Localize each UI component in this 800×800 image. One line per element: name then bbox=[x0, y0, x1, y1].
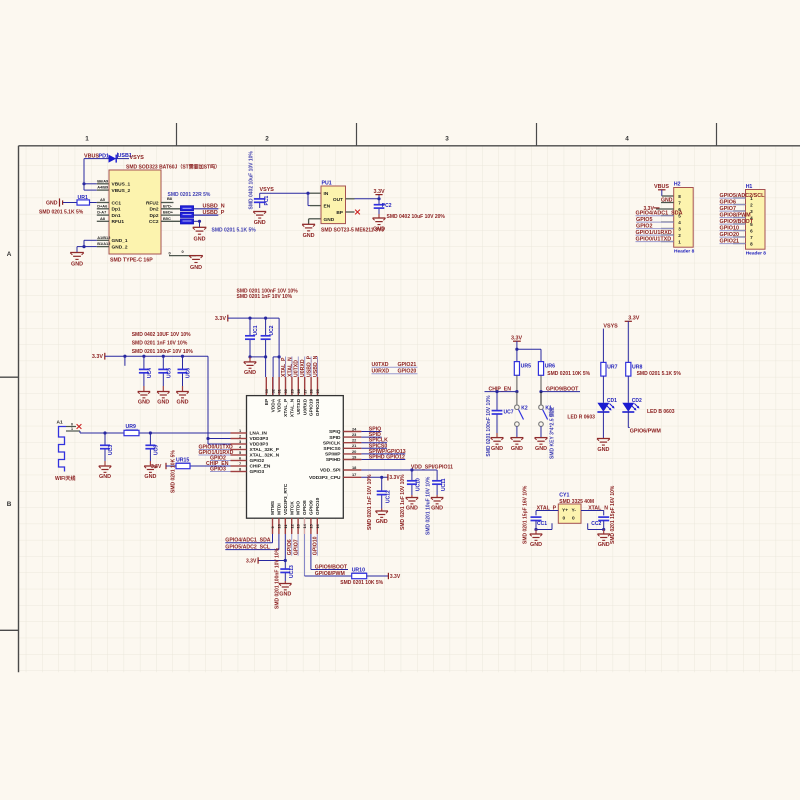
svg-text:GPIO2: GPIO2 bbox=[250, 458, 265, 464]
svg-text:SPIWP: SPIWP bbox=[325, 452, 341, 458]
svg-text:CC1: CC1 bbox=[112, 200, 122, 206]
pin 1 stub H1 bbox=[733, 197, 746, 199]
svg-text:GND: GND bbox=[406, 506, 418, 512]
pin 22 SPICLK bbox=[343, 442, 361, 444]
pin A4/B9 bbox=[97, 189, 109, 191]
svg-text:CC2: CC2 bbox=[149, 219, 159, 225]
svg-text:CC2: CC2 bbox=[591, 521, 601, 527]
svg-text:SMD 0201 10K 5%: SMD 0201 10K 5% bbox=[170, 450, 176, 493]
svg-text:SMD 0201 1nF 10V 10%: SMD 0201 1nF 10V 10% bbox=[132, 341, 188, 347]
power flag 3.3V UC1 rail bbox=[227, 315, 229, 322]
net label USBD_N vertical bbox=[317, 357, 319, 378]
svg-text:U0RXD: U0RXD bbox=[300, 359, 306, 377]
svg-text:Y-: Y- bbox=[572, 508, 577, 514]
junction UC1 top bbox=[248, 317, 251, 320]
net label USBD_P vertical bbox=[310, 357, 312, 378]
capacitor UC11 bbox=[436, 470, 438, 481]
row tick B-C bbox=[0, 629, 19, 631]
svg-text:SMD 0201 10K 5%: SMD 0201 10K 5% bbox=[547, 371, 590, 377]
no-connect antenna pin0 bbox=[77, 424, 82, 429]
wire GPIO9/BOOT row bbox=[541, 391, 580, 393]
svg-text:CHIP_EN: CHIP_EN bbox=[250, 464, 271, 470]
svg-text:VSYS: VSYS bbox=[260, 187, 275, 193]
power flag 3.3V UR10 bbox=[387, 573, 389, 579]
svg-text:GND: GND bbox=[597, 447, 609, 453]
svg-text:UC3: UC3 bbox=[108, 445, 114, 455]
svg-text:GND: GND bbox=[431, 506, 443, 512]
svg-text:GPIO9/BOOT: GPIO9/BOOT bbox=[546, 386, 579, 392]
junction UC2 bottom bbox=[264, 355, 267, 358]
svg-text:UC11: UC11 bbox=[441, 478, 447, 491]
antenna A1 meander bbox=[59, 427, 67, 472]
svg-text:OUT: OUT bbox=[333, 197, 343, 203]
svg-text:GPIO9/BOOT: GPIO9/BOOT bbox=[315, 564, 348, 570]
svg-text:A1/B12: A1/B12 bbox=[97, 235, 111, 240]
svg-text:XTAL_32K_P: XTAL_32K_P bbox=[250, 447, 280, 453]
svg-text:MTCK: MTCK bbox=[289, 501, 295, 515]
svg-text:1: 1 bbox=[678, 239, 681, 244]
wire CD2 to GPIO6/PWM bbox=[627, 412, 629, 428]
svg-text:GND: GND bbox=[244, 370, 256, 376]
svg-text:H1: H1 bbox=[746, 184, 753, 190]
svg-text:GPIO10: GPIO10 bbox=[313, 536, 319, 555]
svg-text:8: 8 bbox=[750, 241, 753, 246]
svg-text:UR6: UR6 bbox=[545, 364, 555, 370]
pin 4 stub bbox=[661, 221, 674, 223]
ground under PU1 bbox=[302, 223, 315, 225]
pin B5 CC2 bbox=[161, 220, 181, 222]
svg-text:3.3V: 3.3V bbox=[389, 475, 400, 481]
svg-text:SMD 0201 5.1K 5%: SMD 0201 5.1K 5% bbox=[637, 371, 682, 377]
wire VBUS to connector bbox=[83, 159, 85, 191]
IC bottom pin stubs bbox=[272, 518, 274, 534]
connector USB1 body bbox=[109, 170, 161, 254]
wire VDDA feed bbox=[273, 356, 279, 358]
junction OUT bbox=[377, 197, 380, 200]
svg-text:SMD 0201 10K 5%: SMD 0201 10K 5% bbox=[340, 580, 383, 586]
resistor UR6 bbox=[538, 362, 543, 376]
ground under PC1 bbox=[253, 211, 266, 213]
svg-text:RFU1: RFU1 bbox=[112, 219, 125, 225]
pin 6 3.3V stub bbox=[656, 208, 674, 210]
LED CD1 bbox=[602, 376, 604, 403]
net label U0RXD vertical bbox=[304, 357, 306, 378]
pin 2 VDD3P3 bbox=[231, 438, 247, 440]
ground shield bbox=[189, 255, 203, 257]
wire VSYS rail bbox=[260, 192, 310, 194]
svg-text:Y+: Y+ bbox=[562, 508, 568, 514]
svg-text:SMD KEY 3*4*2.5 侧按: SMD KEY 3*4*2.5 侧按 bbox=[549, 407, 556, 459]
svg-text:SPIQ: SPIQ bbox=[329, 429, 341, 435]
net label SPIHD GPIO12 bbox=[361, 459, 405, 461]
svg-text:GPIO8/PWM: GPIO8/PWM bbox=[315, 571, 345, 577]
svg-text:Header 8: Header 8 bbox=[674, 249, 695, 255]
svg-text:Header 8: Header 8 bbox=[746, 251, 767, 257]
svg-text:GND: GND bbox=[661, 197, 673, 203]
svg-text:0: 0 bbox=[563, 516, 566, 522]
svg-text:VDD_SPI: VDD_SPI bbox=[320, 468, 341, 474]
svg-text:GND: GND bbox=[190, 265, 202, 271]
svg-text:UR5: UR5 bbox=[521, 364, 531, 370]
svg-text:SMD 0201 22R 5%: SMD 0201 22R 5% bbox=[168, 192, 211, 198]
svg-text:UC10: UC10 bbox=[416, 478, 422, 491]
svg-text:SMD 0201 1nF 10V 10%: SMD 0201 1nF 10V 10% bbox=[367, 474, 373, 530]
svg-text:B7D-: B7D- bbox=[163, 203, 173, 208]
capacitor UC5 bbox=[162, 356, 164, 369]
wire 3.3V cap bank rail bbox=[105, 355, 208, 357]
pin OUT bbox=[346, 198, 355, 200]
resistor UR2 bbox=[181, 206, 194, 211]
svg-text:CY1: CY1 bbox=[559, 493, 569, 499]
svg-text:GPIO4/ADC1_SDA: GPIO4/ADC1_SDA bbox=[225, 538, 271, 544]
svg-text:USBD_P: USBD_P bbox=[307, 355, 313, 377]
svg-text:GPIO21: GPIO21 bbox=[398, 362, 417, 368]
junction UC9 bbox=[149, 431, 152, 434]
junction UC1 bottom bbox=[248, 355, 251, 358]
wire XTAL_N bbox=[581, 510, 604, 512]
pin 4 stub H1 bbox=[733, 217, 746, 219]
svg-text:VDD_SPI/GPIO11: VDD_SPI/GPIO11 bbox=[411, 465, 453, 471]
svg-text:Dn2: Dn2 bbox=[149, 207, 158, 213]
svg-text:7: 7 bbox=[239, 461, 241, 466]
svg-text:GND: GND bbox=[491, 446, 503, 452]
svg-text:H2: H2 bbox=[674, 182, 681, 188]
pin 2 stub H1 bbox=[733, 204, 746, 206]
ground under CC2 bbox=[603, 530, 605, 535]
pin 7 stub H1 bbox=[733, 236, 746, 238]
svg-text:VDDA: VDDA bbox=[277, 398, 283, 412]
pin 20 SPIWP bbox=[343, 453, 361, 455]
pin A1/B12 GND_1 bbox=[97, 239, 109, 241]
svg-text:GPIO10: GPIO10 bbox=[315, 497, 321, 515]
svg-text:UC7: UC7 bbox=[504, 409, 514, 415]
svg-text:GND: GND bbox=[144, 474, 156, 480]
svg-text:UC1: UC1 bbox=[253, 325, 259, 335]
capacitor CC1 bbox=[531, 516, 542, 518]
junction UC7 bbox=[495, 390, 498, 393]
svg-text:0: 0 bbox=[71, 422, 73, 426]
pin 19 SPIHD bbox=[343, 459, 361, 461]
net label GPIO6 vertical bbox=[291, 534, 293, 556]
svg-text:B1/A12: B1/A12 bbox=[97, 241, 111, 246]
svg-text:GND: GND bbox=[303, 233, 315, 239]
svg-text:27: 27 bbox=[302, 389, 307, 393]
svg-text:XTAL_P: XTAL_P bbox=[283, 398, 289, 417]
svg-text:GND_1: GND_1 bbox=[112, 238, 128, 244]
ground under UC7 bbox=[496, 433, 498, 438]
pin 7 CHIP_EN bbox=[231, 465, 247, 467]
pin 23 SPID bbox=[343, 436, 361, 438]
ground under PC2 bbox=[378, 214, 380, 218]
svg-text:VBUS_1: VBUS_1 bbox=[112, 182, 131, 188]
svg-text:2: 2 bbox=[678, 233, 681, 238]
pin 5 stub bbox=[661, 215, 674, 217]
pin D-/A7 Dn1 bbox=[97, 214, 109, 216]
svg-text:GND: GND bbox=[598, 542, 610, 548]
svg-text:GPIO20: GPIO20 bbox=[398, 369, 417, 375]
svg-text:2: 2 bbox=[750, 202, 753, 207]
svg-text:RFU2: RFU2 bbox=[146, 200, 159, 206]
svg-text:GPIO6/PWM: GPIO6/PWM bbox=[630, 428, 662, 434]
svg-text:GPIO19: GPIO19 bbox=[309, 398, 315, 416]
svg-text:UC4: UC4 bbox=[147, 368, 153, 378]
net label XTAL_N vertical bbox=[291, 357, 293, 378]
svg-text:3: 3 bbox=[445, 136, 449, 143]
svg-text:VSYS: VSYS bbox=[603, 323, 618, 329]
net label XTAL_P vertical bbox=[285, 357, 287, 378]
svg-text:UC13: UC13 bbox=[289, 565, 295, 578]
pin B7 Dn2 bbox=[161, 208, 181, 210]
svg-text:VDDA: VDDA bbox=[270, 398, 276, 412]
svg-text:20: 20 bbox=[352, 449, 356, 454]
ground under K2 bbox=[510, 437, 523, 439]
svg-text:B5C: B5C bbox=[163, 216, 171, 221]
svg-text:UC6: UC6 bbox=[186, 368, 192, 378]
svg-text:GND: GND bbox=[194, 237, 206, 243]
svg-text:4: 4 bbox=[625, 136, 629, 143]
pin 18 VDD_SPI bbox=[343, 469, 361, 471]
svg-text:MTDI: MTDI bbox=[277, 503, 283, 515]
resistor UR15 wire bbox=[190, 465, 231, 467]
wire EN bbox=[307, 193, 309, 205]
svg-text:SPIHD: SPIHD bbox=[326, 457, 341, 463]
wire VDD3P3_RTC 3.3V bbox=[284, 534, 286, 561]
svg-text:3.3V: 3.3V bbox=[92, 354, 103, 360]
svg-text:GPIO3: GPIO3 bbox=[250, 469, 265, 475]
wire VDD_SPI bbox=[361, 469, 437, 471]
ground under UC1 bbox=[249, 357, 251, 362]
svg-text:U0TXD: U0TXD bbox=[296, 398, 302, 414]
wire crystal gnd right bbox=[588, 529, 604, 531]
net label GPIO7 vertical bbox=[297, 534, 299, 556]
junction UC6 bbox=[181, 355, 184, 358]
svg-text:7: 7 bbox=[678, 200, 681, 205]
junction UC2 top bbox=[264, 317, 267, 320]
svg-text:SMD TYPE-C 16P: SMD TYPE-C 16P bbox=[110, 258, 153, 264]
ground under UC6 bbox=[182, 386, 184, 392]
wire GND pins bbox=[84, 239, 97, 241]
svg-text:GPIO7: GPIO7 bbox=[294, 539, 300, 555]
ground under USB left bbox=[70, 252, 84, 254]
resistor UR7 bbox=[601, 362, 606, 376]
pin 8 stub H1 bbox=[733, 243, 746, 245]
svg-text:GND: GND bbox=[71, 262, 83, 268]
pin BP bbox=[346, 211, 355, 213]
wire GPIO4 row bbox=[272, 534, 274, 543]
ground under UC10 bbox=[411, 495, 413, 498]
ground under UC12 bbox=[381, 509, 383, 512]
svg-text:8: 8 bbox=[678, 194, 681, 199]
junction EN branch bbox=[306, 192, 309, 195]
svg-text:3.3V: 3.3V bbox=[628, 316, 639, 322]
pin 3 VDD3P3 bbox=[231, 443, 247, 445]
ground under UC11 bbox=[436, 495, 438, 498]
junction UC3 bbox=[103, 431, 106, 434]
junction GND pins bbox=[82, 245, 85, 248]
svg-text:A8: A8 bbox=[100, 216, 106, 221]
net label GPIO10 vertical bbox=[316, 534, 318, 556]
pin 7 GND stub bbox=[661, 202, 674, 204]
svg-text:VBUS_2: VBUS_2 bbox=[112, 188, 131, 194]
power flag 3.3V cap bank bbox=[104, 353, 106, 360]
svg-text:SMD 0201 5.1K 5%: SMD 0201 5.1K 5% bbox=[212, 227, 257, 233]
svg-text:XTAL_P: XTAL_P bbox=[281, 357, 287, 377]
svg-text:3.3V: 3.3V bbox=[390, 574, 401, 580]
junction UC10 bbox=[410, 468, 413, 471]
ground under CC1 bbox=[535, 530, 537, 535]
svg-text:Dp1: Dp1 bbox=[112, 207, 121, 213]
svg-text:VDD3P3: VDD3P3 bbox=[250, 436, 269, 442]
svg-text:SMD 0201 1nF 10V 10%: SMD 0201 1nF 10V 10% bbox=[237, 294, 293, 300]
ground under UC3 bbox=[99, 465, 112, 467]
resistor UR8 bbox=[626, 362, 631, 376]
svg-text:30: 30 bbox=[283, 389, 288, 393]
svg-text:GPIO6: GPIO6 bbox=[287, 539, 293, 555]
junction UC4 bbox=[142, 355, 145, 358]
junction K1 bbox=[539, 390, 542, 393]
svg-text:VDD3P3: VDD3P3 bbox=[250, 442, 269, 448]
svg-text:0: 0 bbox=[169, 250, 171, 255]
ground under UC5 bbox=[162, 386, 164, 392]
power flag 3.3V RTC bbox=[257, 557, 259, 563]
antenna A1 pins bbox=[66, 426, 76, 428]
svg-text:A4/B9: A4/B9 bbox=[97, 185, 109, 190]
svg-text:4: 4 bbox=[678, 220, 681, 225]
capacitor UC12 bbox=[381, 477, 383, 491]
svg-text:6: 6 bbox=[750, 228, 753, 233]
svg-text:SMD 0201 100nF 10V 10%: SMD 0201 100nF 10V 10% bbox=[132, 349, 194, 355]
pin 5 XTAL_32K_N bbox=[231, 454, 247, 456]
resistor UR4 bbox=[181, 219, 194, 224]
svg-text:VSYS: VSYS bbox=[130, 155, 145, 161]
svg-text:Dn1: Dn1 bbox=[112, 213, 121, 219]
svg-text:SPIHD GPIO12: SPIHD GPIO12 bbox=[369, 455, 405, 461]
pin B1/A12 GND_2 bbox=[97, 246, 109, 248]
svg-text:3.3V: 3.3V bbox=[151, 464, 162, 470]
svg-text:LED R 0603: LED R 0603 bbox=[567, 414, 595, 420]
svg-text:LNA_IN: LNA_IN bbox=[250, 431, 268, 437]
capacitor UC9 bbox=[149, 433, 151, 445]
power flag 3.3V at PC2 bbox=[378, 195, 380, 199]
wire USBD_N bbox=[194, 208, 219, 210]
junction UC12 bbox=[380, 476, 383, 479]
svg-text:GPIO9: GPIO9 bbox=[309, 500, 315, 515]
pin 8 GPIO3 bbox=[231, 471, 247, 473]
ground under UC4 bbox=[143, 386, 145, 392]
wire GPIO5 row bbox=[278, 534, 280, 550]
svg-text:CC1: CC1 bbox=[537, 521, 547, 527]
column tick 3-4 bbox=[536, 123, 538, 146]
junction K2 bbox=[515, 390, 518, 393]
net label SPICLK bbox=[361, 442, 387, 444]
svg-text:SMD 0201 15pF 16V 10%: SMD 0201 15pF 16V 10% bbox=[522, 485, 528, 544]
ground under CC2 bbox=[193, 226, 207, 228]
pin 4 XTAL_32K_P bbox=[231, 449, 247, 451]
svg-text:GND: GND bbox=[511, 446, 523, 452]
svg-text:GND: GND bbox=[530, 542, 542, 548]
stub on rail bbox=[124, 356, 126, 366]
LED CD2 bbox=[627, 376, 629, 403]
svg-text:MTMS: MTMS bbox=[270, 500, 276, 515]
svg-text:U0TXD: U0TXD bbox=[294, 360, 300, 377]
svg-text:SMD 0201 1uF 10V 10%: SMD 0201 1uF 10V 10% bbox=[400, 474, 406, 530]
wire VDD3P3_CPU bbox=[361, 476, 387, 478]
pin D+/A6 Dp1 bbox=[97, 208, 109, 210]
svg-text:7: 7 bbox=[750, 235, 753, 240]
svg-text:GND: GND bbox=[99, 474, 111, 480]
junction CC1 bbox=[534, 528, 537, 531]
svg-text:IN: IN bbox=[324, 191, 329, 197]
capacitor UC13 bbox=[284, 561, 286, 570]
capacitor UC1 bbox=[249, 318, 251, 336]
wire crystal gnd left bbox=[536, 529, 552, 531]
svg-text:GND: GND bbox=[535, 446, 547, 452]
power flag 3.3V CPU bbox=[387, 474, 389, 480]
svg-text:SMD 0201 15pF 16V 10%: SMD 0201 15pF 16V 10% bbox=[610, 485, 616, 544]
svg-text:GND_2: GND_2 bbox=[112, 244, 128, 250]
svg-text:PC1: PC1 bbox=[264, 196, 270, 206]
svg-text:A: A bbox=[7, 251, 12, 258]
svg-text:3: 3 bbox=[678, 226, 681, 231]
svg-text:WIFI天线: WIFI天线 bbox=[55, 475, 76, 482]
pin 3 stub bbox=[661, 228, 674, 230]
no-connect BP bbox=[355, 210, 360, 215]
svg-text:10: 10 bbox=[277, 524, 282, 528]
capacitor UC7 bbox=[496, 392, 498, 411]
pin EP wire bbox=[265, 357, 267, 377]
net label SPIWP/GPIO13 bbox=[361, 453, 405, 455]
junction UC5 bbox=[162, 355, 165, 358]
pin 1 LNA_IN bbox=[231, 432, 247, 434]
svg-text:SMD 0201 100nF 10V 10%: SMD 0201 100nF 10V 10% bbox=[275, 547, 281, 609]
capacitor CC2 bbox=[598, 516, 609, 518]
wire GND rail UC1/UC2 bbox=[250, 356, 266, 358]
diode PD1 bbox=[109, 155, 117, 163]
svg-text:SMD 0201 5.1K 5%: SMD 0201 5.1K 5% bbox=[39, 210, 84, 216]
svg-text:GND: GND bbox=[138, 400, 150, 406]
svg-text:USBD_P: USBD_P bbox=[203, 210, 225, 216]
IC top pin stubs bbox=[265, 377, 267, 396]
svg-text:GND: GND bbox=[376, 519, 388, 525]
svg-text:B6/A9: B6/A9 bbox=[97, 178, 109, 183]
net label SPID bbox=[361, 436, 381, 438]
net label U0TXD vertical bbox=[297, 357, 299, 378]
svg-text:B6D+: B6D+ bbox=[163, 210, 174, 215]
svg-text:1: 1 bbox=[85, 136, 89, 143]
svg-text:XTAL_N: XTAL_N bbox=[290, 398, 296, 417]
svg-text:3.3V: 3.3V bbox=[215, 316, 226, 322]
IC U1 ESP32 body bbox=[247, 396, 344, 519]
pin B6 Dp2 bbox=[161, 214, 181, 216]
svg-text:SMD 0402 10UF 10V 10%: SMD 0402 10UF 10V 10% bbox=[132, 332, 191, 338]
crystal CY1 body bbox=[558, 504, 581, 523]
pin 21 SPICS0 bbox=[343, 447, 361, 449]
capacitor PC2 bbox=[378, 199, 380, 205]
pin B6/A9 bbox=[97, 183, 109, 185]
pin 2 stub bbox=[661, 234, 674, 236]
svg-text:2: 2 bbox=[265, 136, 269, 143]
junction UC13 bbox=[284, 559, 287, 562]
svg-text:MTDO: MTDO bbox=[296, 501, 302, 515]
svg-text:GND: GND bbox=[46, 201, 58, 207]
svg-text:D+A6: D+A6 bbox=[97, 203, 108, 208]
pin 5 stub H1 bbox=[733, 223, 746, 225]
junction VDD3P3 rows bbox=[206, 437, 209, 440]
ground under CD1 bbox=[602, 412, 604, 439]
svg-text:XTAL_N: XTAL_N bbox=[287, 357, 293, 377]
svg-text:USBD_N: USBD_N bbox=[313, 355, 319, 377]
net label SPICS0 bbox=[361, 447, 387, 449]
